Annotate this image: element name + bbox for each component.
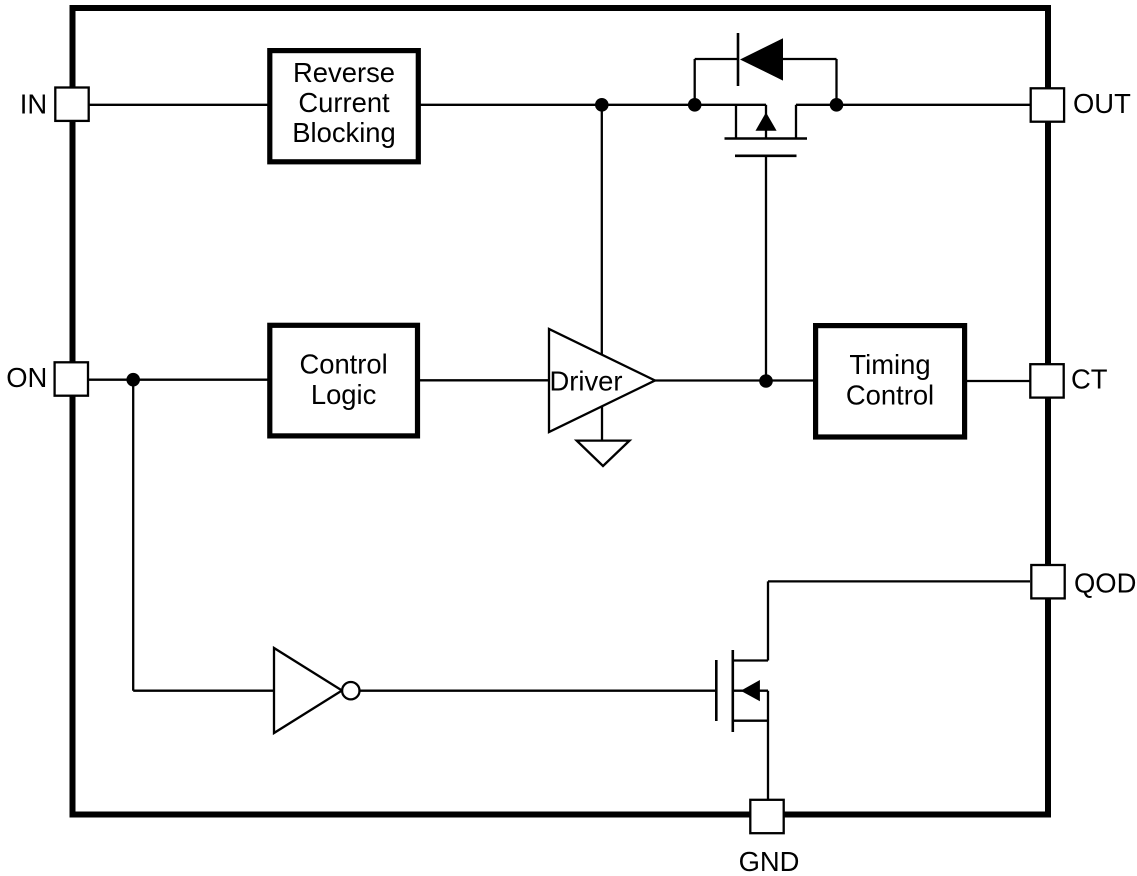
- svg-text:Current: Current: [298, 87, 390, 118]
- svg-text:OUT: OUT: [1073, 88, 1131, 119]
- svg-text:Control: Control: [846, 380, 934, 411]
- svg-text:Blocking: Blocking: [292, 117, 396, 148]
- svg-text:GND: GND: [739, 846, 800, 876]
- svg-text:QOD: QOD: [1074, 568, 1136, 599]
- svg-text:Timing: Timing: [849, 349, 930, 380]
- svg-text:Control: Control: [299, 349, 387, 380]
- svg-text:IN: IN: [20, 88, 47, 119]
- svg-text:ON: ON: [6, 362, 47, 393]
- svg-text:CT: CT: [1071, 364, 1108, 395]
- svg-text:Driver: Driver: [549, 365, 622, 396]
- svg-text:Logic: Logic: [311, 379, 376, 410]
- svg-text:Reverse: Reverse: [293, 57, 395, 88]
